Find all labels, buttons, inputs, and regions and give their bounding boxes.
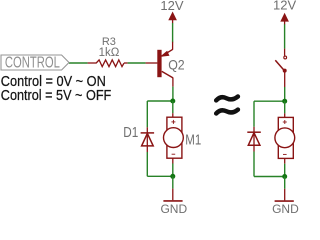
svg-text:1kΩ: 1kΩ bbox=[99, 47, 120, 59]
svg-text:12V: 12V bbox=[273, 0, 296, 12]
svg-text:D1: D1 bbox=[123, 125, 138, 141]
svg-text:GND: GND bbox=[272, 202, 299, 214]
svg-text:CONTROL: CONTROL bbox=[5, 55, 60, 72]
svg-text:Q2: Q2 bbox=[168, 56, 185, 72]
svg-text:GND: GND bbox=[160, 202, 187, 214]
svg-text:Control = 5V ~ OFF: Control = 5V ~ OFF bbox=[1, 87, 112, 104]
svg-text:M1: M1 bbox=[185, 133, 201, 149]
svg-text:12V: 12V bbox=[160, 0, 183, 13]
